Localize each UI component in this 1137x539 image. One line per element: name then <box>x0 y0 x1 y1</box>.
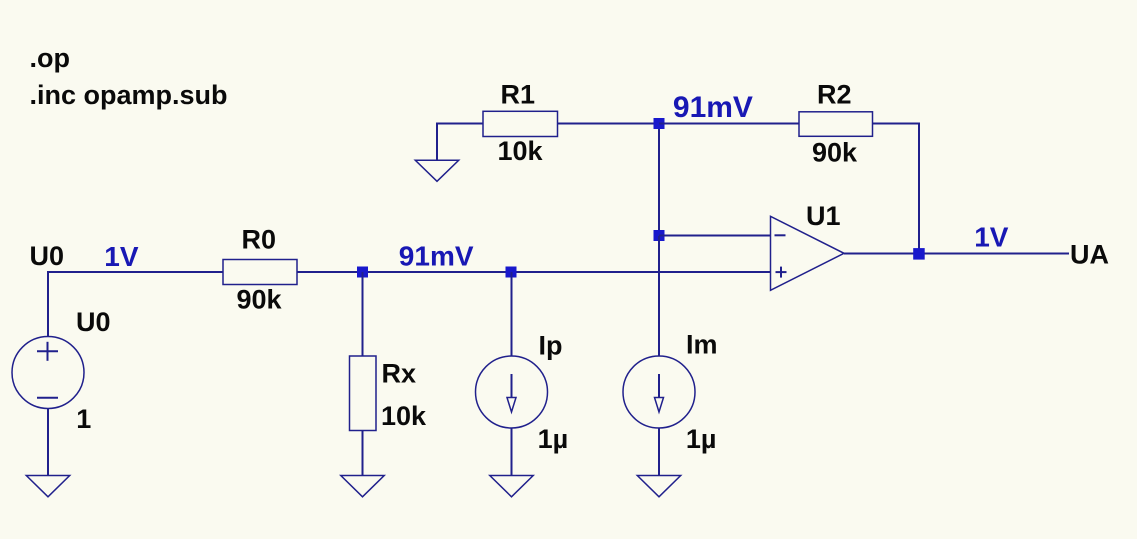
svg-text:R2: R2 <box>817 80 852 110</box>
current source Ip <box>476 356 548 428</box>
wire ground stub to R1 <box>437 124 483 161</box>
resistor R0 <box>223 260 297 285</box>
wire R1 to node C <box>558 123 660 125</box>
ground at R1 left <box>415 160 458 181</box>
junction output node <box>913 248 925 260</box>
wire R1/R2 node down to - input node <box>658 124 660 237</box>
wire node C to R2 <box>659 123 799 125</box>
svg-text:Rx: Rx <box>382 359 417 389</box>
svg-text:10k: 10k <box>381 401 427 431</box>
wire Im to ground <box>658 428 660 475</box>
svg-text:90k: 90k <box>237 285 283 315</box>
wire - input node down to Im (crosses + wire) <box>658 236 660 356</box>
wire from R0 to op-amp + input <box>297 271 770 273</box>
svg-text:U0: U0 <box>30 241 65 271</box>
svg-text:91mV: 91mV <box>399 241 474 272</box>
resistor R1 <box>483 111 558 136</box>
svg-text:90k: 90k <box>812 137 858 167</box>
voltage source U0 <box>12 337 84 409</box>
ground <box>341 476 384 497</box>
wire from U0 source to R0 <box>48 272 223 336</box>
svg-text:UA: UA <box>1070 240 1109 270</box>
svg-text:1µ: 1µ <box>686 424 717 454</box>
svg-text:U1: U1 <box>806 201 841 231</box>
ground <box>26 476 69 497</box>
svg-text:10k: 10k <box>498 136 544 166</box>
wire - input node to op-amp <box>659 235 770 237</box>
svg-text:R0: R0 <box>242 225 277 255</box>
svg-text:1V: 1V <box>974 221 1009 252</box>
wire output node to UA <box>925 253 1070 255</box>
junction node A <box>357 267 368 278</box>
junction node B <box>506 267 517 278</box>
ground <box>637 476 680 497</box>
svg-text:U0: U0 <box>76 307 111 337</box>
op-amp U1 <box>771 216 845 290</box>
wire op-amp output to output node <box>844 253 919 255</box>
junction node C <box>654 118 665 129</box>
wire node A to Rx <box>362 272 364 356</box>
wire Ip to ground <box>511 428 513 475</box>
svg-text:91mV: 91mV <box>673 91 753 124</box>
resistor R2 <box>799 112 873 137</box>
svg-text:1V: 1V <box>104 241 139 272</box>
resistor Rx <box>350 356 377 431</box>
svg-text:1: 1 <box>76 404 91 434</box>
svg-text:R1: R1 <box>501 80 536 110</box>
svg-text:1µ: 1µ <box>538 424 569 454</box>
svg-text:.inc opamp.sub: .inc opamp.sub <box>30 80 228 110</box>
current source Im <box>623 356 695 428</box>
svg-text:.op: .op <box>30 43 71 73</box>
wire Rx to ground <box>362 431 364 476</box>
svg-text:Im: Im <box>686 330 718 360</box>
ground <box>490 476 533 497</box>
wire node B to Ip <box>511 272 513 356</box>
junction at - input node <box>654 230 665 241</box>
wire from U0 bottom to ground <box>47 409 49 476</box>
svg-text:Ip: Ip <box>539 330 563 360</box>
wire R2 to output node <box>873 124 920 254</box>
